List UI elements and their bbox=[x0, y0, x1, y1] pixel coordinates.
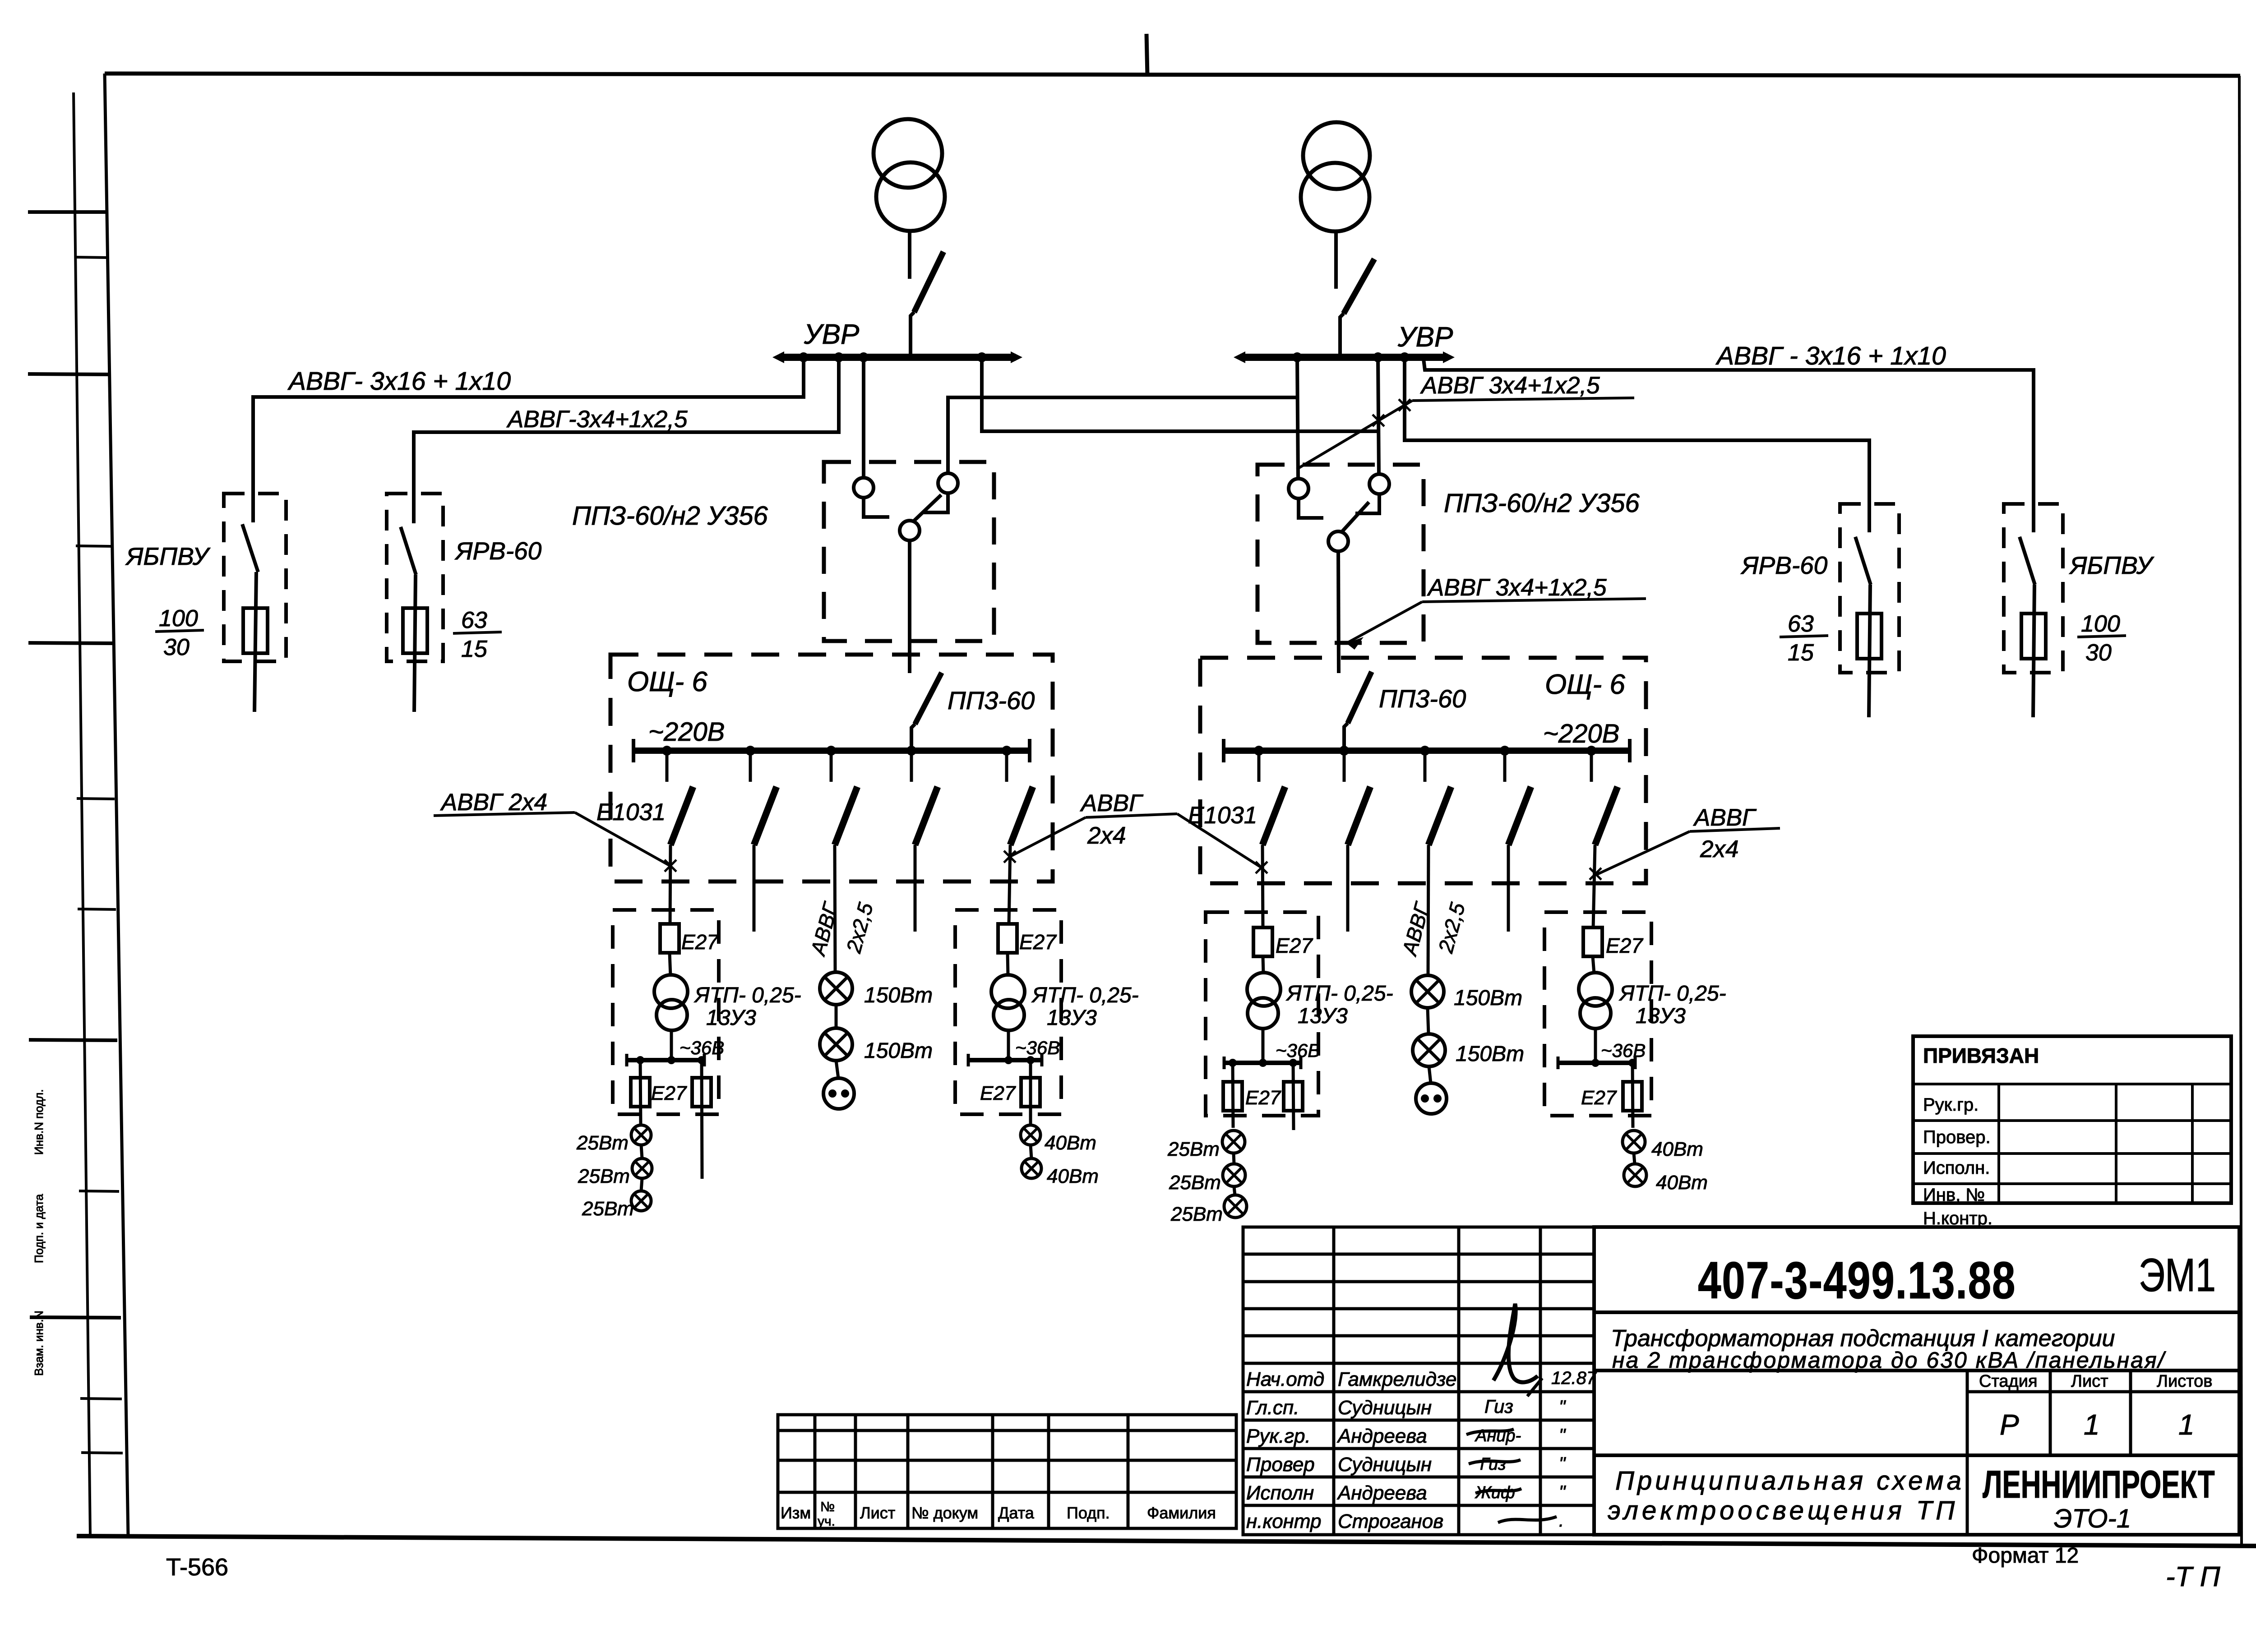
wire through fuse ЯРВ-60 right bbox=[1869, 585, 1870, 717]
changeover switch box ППЗ-60/Н2 1 bbox=[824, 462, 994, 641]
wire branch5 to group C2 bbox=[1593, 845, 1595, 928]
svg-text:407-3-499.13.88: 407-3-499.13.88 bbox=[1698, 1251, 2016, 1310]
lamp 25Вт A1-2 bbox=[632, 1158, 652, 1178]
switch blade in ЯБПВУ left bbox=[242, 524, 258, 572]
panel2 bus dot 4 bbox=[1500, 746, 1510, 756]
wire B2 lamp1-2 bbox=[1428, 1008, 1428, 1034]
A1 36V dot 3 bbox=[698, 1056, 706, 1064]
A2 right lamp fuse bbox=[1284, 1063, 1303, 1130]
label ЯТП-0,25-13У3 group C2 bbox=[1618, 982, 1726, 1028]
transformer ЯТП group C1 bbox=[991, 953, 1025, 1060]
svg-text:Е27: Е27 bbox=[1581, 1087, 1617, 1109]
svg-text:13У3: 13У3 bbox=[1298, 1004, 1348, 1028]
panel2 branch switch 5 bbox=[1591, 751, 1618, 845]
A2 36V dot 1 bbox=[1229, 1059, 1237, 1067]
svg-text:150Вт: 150Вт bbox=[864, 1039, 933, 1063]
label ЯТП-0,25-13У3 group A2 bbox=[1285, 982, 1393, 1028]
label АВВГ 2х4 left with leader bbox=[434, 789, 669, 865]
svg-text:13У3: 13У3 bbox=[706, 1006, 756, 1030]
panel1 branch switch 3 bbox=[831, 751, 857, 845]
svg-text:~36В: ~36В bbox=[1276, 1040, 1320, 1061]
revision header №уч bbox=[818, 1500, 835, 1529]
svg-text:ЭМ1: ЭМ1 bbox=[2139, 1249, 2216, 1301]
wire B2 lamp2-socket bbox=[1429, 1066, 1431, 1083]
svg-text:Подп. и дата: Подп. и дата bbox=[32, 1194, 46, 1263]
svg-text:2х2,5: 2х2,5 bbox=[1433, 900, 1470, 956]
svg-text:Е27: Е27 bbox=[1276, 934, 1313, 957]
ППЗ2 common contact and blade bbox=[1328, 502, 1369, 551]
svg-text:ЯБПВУ: ЯБПВУ bbox=[125, 542, 211, 570]
svg-text:-Т П: -Т П bbox=[2166, 1561, 2220, 1592]
margin tick 8 bbox=[29, 1040, 117, 1040]
lamp 40Вт C2-2 bbox=[1624, 1164, 1646, 1186]
transformer T2 bbox=[1301, 122, 1370, 231]
wire T2 to switch bbox=[1334, 231, 1338, 289]
label ЯТП-0,25-13У3 group C1 bbox=[1031, 983, 1139, 1030]
svg-text:АВВГ-3х4+1х2,5: АВВГ-3х4+1х2,5 bbox=[506, 406, 688, 433]
ППЗ2 right contact bbox=[1355, 474, 1389, 513]
leader cross at branch1 bbox=[665, 860, 676, 872]
svg-text:Е27: Е27 bbox=[651, 1082, 687, 1104]
wire branch2 stub panel2 bbox=[1346, 845, 1350, 932]
svg-text:.: . bbox=[1559, 1511, 1564, 1531]
svg-text:Провер: Провер bbox=[1246, 1454, 1315, 1476]
switch blade in ЯРВ-60 right bbox=[1855, 537, 1871, 585]
wire ППЗ2 to panel 2 bbox=[1338, 551, 1339, 673]
svg-text:": " bbox=[1559, 1426, 1566, 1445]
wire through fuse ЯБПВУ left bbox=[254, 572, 256, 712]
svg-text:ОЩ- 6: ОЩ- 6 bbox=[1545, 669, 1625, 700]
svg-text:УВР: УВР bbox=[804, 319, 859, 350]
transformer T1 bbox=[874, 119, 945, 231]
svg-text:Исполн.: Исполн. bbox=[1923, 1158, 1990, 1178]
wire ППЗ1 right contact to link line bbox=[948, 397, 1299, 473]
panel1 branch switch 2 bbox=[750, 751, 777, 845]
svg-text:Фамилия: Фамилия bbox=[1147, 1504, 1216, 1522]
ППЗ1 right contact bbox=[923, 473, 958, 512]
panel1 bus dot 5 bbox=[1002, 746, 1012, 756]
svg-text:": " bbox=[1559, 1454, 1566, 1474]
bus1 junction dot b bbox=[834, 352, 844, 362]
bus2 junction dot b bbox=[1373, 352, 1383, 362]
wire C2 lamp1-2 bbox=[1634, 1153, 1635, 1164]
svg-text:Изм: Изм bbox=[781, 1504, 811, 1522]
svg-text:2х4: 2х4 bbox=[1087, 822, 1126, 849]
bus2 junction dot a bbox=[1292, 352, 1302, 362]
svg-text:ППЗ-60/н2 У356: ППЗ-60/н2 У356 bbox=[1444, 489, 1640, 518]
signature row Гл.сп bbox=[1246, 1396, 1566, 1419]
lighting panel box ОЩ-6 right bbox=[1200, 658, 1646, 883]
svg-text:Анир-: Анир- bbox=[1475, 1426, 1521, 1445]
panel1 branch switch 4 bbox=[911, 751, 938, 845]
svg-text:1: 1 bbox=[2178, 1408, 2195, 1441]
A1 left lamp fuse bbox=[631, 1060, 650, 1125]
svg-text:ЯТП- 0,25-: ЯТП- 0,25- bbox=[693, 983, 801, 1007]
svg-text:15: 15 bbox=[1788, 640, 1814, 666]
lamp 25Вт A1-3 bbox=[631, 1191, 651, 1211]
svg-text:Рук.гр.: Рук.гр. bbox=[1923, 1095, 1979, 1115]
svg-text:Гамкрелидзе: Гамкрелидзе bbox=[1338, 1368, 1456, 1390]
svg-text:1: 1 bbox=[2084, 1408, 2100, 1441]
svg-text:ОЩ- 6: ОЩ- 6 bbox=[627, 666, 707, 697]
svg-text:ЯБПВУ: ЯБПВУ bbox=[2069, 551, 2154, 579]
wire branch3 to group B2 bbox=[1428, 845, 1428, 975]
fuse element ЯРВ-60 right bbox=[1857, 614, 1882, 659]
revision table bbox=[778, 1415, 1236, 1528]
wire A1 lamp1-2 bbox=[641, 1145, 642, 1158]
busbar ~220В panel1 bbox=[633, 739, 1030, 762]
wire through fuse ЯБПВУ right bbox=[2033, 585, 2034, 717]
left margin line bbox=[74, 92, 90, 1537]
svg-text:АВВГ: АВВГ bbox=[1080, 790, 1144, 817]
margin tick 7 bbox=[78, 909, 116, 909]
bus УВР 1 bbox=[772, 351, 1022, 363]
svg-text:63: 63 bbox=[1788, 611, 1814, 637]
group C1 box bbox=[955, 910, 1061, 1114]
border frame right bbox=[2239, 76, 2242, 1545]
C2 lamp fuse bbox=[1623, 1063, 1642, 1128]
svg-text:25Вт: 25Вт bbox=[576, 1132, 629, 1154]
svg-text:ЯРВ-60: ЯРВ-60 bbox=[1740, 551, 1828, 579]
svg-text:АВВГ 2х4: АВВГ 2х4 bbox=[440, 789, 547, 816]
svg-text:": " bbox=[1559, 1397, 1566, 1417]
wire A2 lamp2-3 bbox=[1234, 1186, 1235, 1195]
wire A1 lamp2-3 bbox=[641, 1178, 642, 1191]
svg-text:~220В: ~220В bbox=[648, 717, 725, 747]
switch blade in ЯРВ-60 left bbox=[401, 527, 416, 575]
svg-text:Е27: Е27 bbox=[980, 1082, 1016, 1104]
svg-text:Дата: Дата bbox=[998, 1504, 1035, 1522]
rating 100/30 right bbox=[2077, 611, 2126, 666]
svg-text:Инв, №: Инв, № bbox=[1923, 1185, 1985, 1205]
big signature stroke bbox=[1493, 1304, 1538, 1382]
title block right outer bbox=[1594, 1227, 2239, 1535]
svg-text:150Вт: 150Вт bbox=[1454, 986, 1522, 1010]
svg-text:ЛЕННИИПРОЕКТ: ЛЕННИИПРОЕКТ bbox=[1983, 1463, 2215, 1506]
lamp 40Вт C1-2 bbox=[1022, 1158, 1041, 1178]
lamp 40Вт C1-1 bbox=[1021, 1125, 1040, 1145]
rating 100/30 left bbox=[155, 605, 204, 660]
group A1 box bbox=[613, 910, 719, 1114]
svg-text:АВВГ - 3х16 + 1х10: АВВГ - 3х16 + 1х10 bbox=[1715, 341, 1946, 370]
feed switch blade panel1 bbox=[911, 673, 942, 751]
wire bus2 to cable АВВГ-3х4 right bbox=[1405, 357, 1869, 532]
label АВВГ 3х4+1х2,5 feed with leader bbox=[1346, 574, 1646, 650]
svg-text:Е27: Е27 bbox=[1245, 1087, 1281, 1109]
margin tick 2 bbox=[74, 257, 107, 258]
svg-text:25Вт: 25Вт bbox=[582, 1198, 634, 1220]
busbar ~36В group A2 bbox=[1224, 1057, 1301, 1069]
leader cross at panel2 branch1 bbox=[1256, 862, 1267, 873]
fuse Е27 group A1 bbox=[660, 924, 679, 953]
fuse element ЯБПВУ right bbox=[2021, 614, 2046, 659]
svg-text:Р: Р bbox=[2000, 1408, 2019, 1441]
signature row Нач.отд bbox=[1246, 1368, 1597, 1390]
svg-text:Е27: Е27 bbox=[681, 930, 719, 954]
svg-text:ЯТП- 0,25-: ЯТП- 0,25- bbox=[1031, 983, 1139, 1007]
lamp 150Вт B2-2 bbox=[1413, 1034, 1445, 1066]
C2 36V dot 2 bbox=[1628, 1059, 1637, 1067]
margin tick 1 bbox=[28, 210, 106, 214]
bus УВР 2 bbox=[1234, 351, 1455, 363]
svg-text:100: 100 bbox=[159, 605, 198, 632]
svg-text:Лист: Лист bbox=[860, 1504, 895, 1522]
wire bus2 to cable АВВГ-3х16 right bbox=[1424, 359, 2034, 532]
group A2 box bbox=[1206, 912, 1318, 1116]
svg-text:~36В: ~36В bbox=[1015, 1037, 1060, 1058]
svg-text:Стадия: Стадия bbox=[1979, 1372, 2038, 1391]
busbar ~36В group A1 bbox=[627, 1054, 704, 1066]
bus1 junction dot a bbox=[799, 352, 809, 362]
svg-text:25Вт: 25Вт bbox=[1169, 1172, 1221, 1194]
panel2 bus dot 2 bbox=[1339, 746, 1349, 756]
wire bus1 drop to ППЗ1 left contact bbox=[862, 357, 865, 478]
lamp 25Вт A2-3 bbox=[1224, 1195, 1247, 1218]
svg-text:Андреева: Андреева bbox=[1336, 1425, 1427, 1447]
wire bus1 to cable АВВГ-3х16 left bbox=[253, 357, 804, 522]
svg-text:Подп.: Подп. bbox=[1067, 1504, 1110, 1522]
svg-text:Исполн: Исполн bbox=[1246, 1482, 1314, 1504]
panel1 bus dot 4 bbox=[906, 746, 916, 756]
wire branch1 to group A2 bbox=[1262, 845, 1263, 928]
svg-text:Судницын: Судницын bbox=[1338, 1397, 1432, 1419]
fuse element ЯБПВУ left bbox=[243, 608, 268, 653]
transformer ЯТП group C2 bbox=[1579, 956, 1612, 1062]
panel2 branch switch 2 bbox=[1344, 751, 1370, 845]
svg-text:": " bbox=[1559, 1482, 1566, 1502]
svg-text:T-566: T-566 bbox=[166, 1554, 228, 1581]
ПРИВЯЗАН grid bbox=[1913, 1084, 2231, 1203]
wire branch5 to group C1 bbox=[1009, 845, 1010, 925]
wire through fuse ЯРВ-60 left bbox=[414, 575, 416, 712]
panel1 bus dot 2 bbox=[745, 746, 755, 756]
svg-text:АВВГ- 3х16 + 1х10: АВВГ- 3х16 + 1х10 bbox=[287, 367, 511, 396]
panel2 bus dot 3 bbox=[1420, 746, 1430, 756]
margin tick 6 bbox=[77, 798, 115, 799]
svg-text:30: 30 bbox=[2085, 640, 2112, 666]
svg-text:уч.: уч. bbox=[818, 1514, 835, 1529]
panel2 branch switch 1 bbox=[1259, 751, 1285, 845]
svg-text:63: 63 bbox=[461, 607, 487, 633]
wire branch1 to group A1 bbox=[670, 845, 670, 925]
border frame left bbox=[105, 74, 128, 1537]
leader cross b bbox=[1373, 415, 1384, 426]
margin tick 4 bbox=[76, 546, 112, 546]
svg-text:40Вт: 40Вт bbox=[1651, 1138, 1703, 1160]
title block signature table bbox=[1243, 1227, 1594, 1535]
svg-text:ППЗ-60/н2 У356: ППЗ-60/н2 У356 bbox=[572, 501, 768, 531]
svg-text:Гиз: Гиз bbox=[1480, 1455, 1506, 1474]
wire bus2 to ППЗ2 left contact bbox=[1297, 357, 1298, 479]
wire branch2 stub bbox=[753, 845, 756, 932]
svg-text:100: 100 bbox=[2081, 611, 2120, 637]
feed switch blade panel2 bbox=[1344, 672, 1372, 751]
svg-text:15: 15 bbox=[461, 636, 488, 662]
panel2 branch switch 3 bbox=[1425, 751, 1451, 845]
lamp 150Вт B1-1 bbox=[820, 972, 852, 1005]
svg-text:н.контр: н.контр bbox=[1246, 1510, 1322, 1532]
fuse box ЯРВ-60 left bbox=[387, 494, 443, 661]
signature strokes small bbox=[1466, 1378, 1557, 1523]
svg-text:ПРИВЯЗАН: ПРИВЯЗАН bbox=[1923, 1044, 2039, 1067]
A2 left lamp fuse bbox=[1223, 1063, 1242, 1128]
top center tick bbox=[1146, 34, 1147, 76]
leader cross at panel1 branch5 bbox=[1004, 851, 1016, 863]
margin tick 12 bbox=[81, 1453, 123, 1453]
label АВВГ 2х4 right with leader bbox=[1597, 804, 1780, 874]
lamp 25Вт A2-1 bbox=[1222, 1131, 1245, 1153]
svg-text:Гиз: Гиз bbox=[1484, 1396, 1513, 1417]
signature row Исполн bbox=[1246, 1482, 1566, 1504]
svg-text:12.87: 12.87 bbox=[1551, 1368, 1597, 1388]
svg-text:Е1031: Е1031 bbox=[596, 799, 666, 826]
margin tick 10 bbox=[30, 1317, 121, 1318]
panel1 branch switch 1 bbox=[667, 751, 693, 845]
svg-text:№ докум: № докум bbox=[911, 1504, 978, 1522]
label ЯТП-0,25-13У3 group A1 bbox=[693, 983, 801, 1030]
svg-text:электроосвещения ТП: электроосвещения ТП bbox=[1608, 1496, 1958, 1525]
busbar ~36В group C2 bbox=[1558, 1057, 1635, 1069]
wire B1 lamp2-socket bbox=[836, 1061, 838, 1078]
svg-text:Формат 12: Формат 12 bbox=[1972, 1544, 2079, 1568]
svg-text:ПП3-60: ПП3-60 bbox=[948, 686, 1035, 715]
fuse box ЯБПВУ left bbox=[224, 494, 286, 661]
busbar ~220В panel2 bbox=[1224, 739, 1630, 762]
svg-text:ЯТП- 0,25-: ЯТП- 0,25- bbox=[1618, 982, 1726, 1006]
wire bus2 to ППЗ2 right contact bbox=[1378, 357, 1379, 474]
A1 right lamp fuse bbox=[692, 1060, 711, 1179]
signature row Рук.гр bbox=[1246, 1425, 1566, 1447]
C1 36V dot 1 bbox=[1004, 1056, 1012, 1064]
margin tick 5 bbox=[28, 643, 113, 643]
ППЗ2 left contact bbox=[1289, 479, 1323, 518]
margin tick 11 bbox=[80, 1398, 122, 1399]
svg-text:Инв.N подл.: Инв.N подл. bbox=[32, 1089, 46, 1155]
margin tick 3 bbox=[28, 374, 109, 374]
panel1 bus dot 1 bbox=[662, 746, 672, 756]
svg-text:40Вт: 40Вт bbox=[1045, 1132, 1096, 1154]
стадия table bbox=[1967, 1371, 2239, 1535]
margin tick 9 bbox=[79, 1191, 119, 1191]
svg-text:13У3: 13У3 bbox=[1636, 1004, 1686, 1028]
fuse Е27 group A2 bbox=[1253, 928, 1272, 956]
wire B1 lamp1-2 bbox=[835, 1005, 838, 1028]
lighting panel box ОЩ-6 left bbox=[610, 655, 1053, 881]
A2 36V dot 3 bbox=[1289, 1059, 1297, 1067]
svg-text:ПП3-60: ПП3-60 bbox=[1379, 684, 1466, 713]
svg-text:АВВГ 3х4+1х2,5: АВВГ 3х4+1х2,5 bbox=[1420, 372, 1600, 399]
svg-text:13У3: 13У3 bbox=[1047, 1006, 1097, 1030]
border frame top bbox=[105, 74, 2240, 76]
svg-text:2х4: 2х4 bbox=[1700, 836, 1738, 863]
svg-text:~36В: ~36В bbox=[680, 1037, 724, 1058]
panel2 bus dot 1 bbox=[1254, 746, 1264, 756]
leader cross a bbox=[1399, 399, 1410, 411]
fuse box ЯБПВУ right bbox=[2004, 504, 2063, 673]
label cable АВВГ 3х4+1х2,5 right upper bbox=[1297, 372, 1634, 469]
svg-text:25Вт: 25Вт bbox=[1167, 1138, 1220, 1160]
A2 36V dot 2 bbox=[1259, 1059, 1267, 1067]
lamp 25Вт A2-2 bbox=[1223, 1164, 1245, 1186]
svg-text:Судницын: Судницын bbox=[1338, 1454, 1432, 1476]
switch blade in ЯБПВУ right bbox=[2020, 537, 2035, 585]
group C2 box bbox=[1544, 912, 1651, 1116]
svg-text:30: 30 bbox=[163, 634, 190, 660]
svg-text:Строганов: Строганов bbox=[1338, 1510, 1443, 1532]
svg-text:2х2,5: 2х2,5 bbox=[841, 900, 878, 956]
transformer ЯТП group A1 bbox=[654, 953, 688, 1060]
label АВВГ 2х4 center with leaders bbox=[1011, 790, 1261, 867]
svg-text:Гл.сп.: Гл.сп. bbox=[1246, 1397, 1299, 1419]
svg-text:ЭТО-1: ЭТО-1 bbox=[2054, 1504, 2131, 1533]
svg-text:Принципиальная схема: Принципиальная схема bbox=[1615, 1466, 1965, 1495]
lamp 150Вт B1-2 bbox=[820, 1028, 852, 1061]
C1 lamp fuse bbox=[1021, 1060, 1040, 1125]
wire branch4 stub panel2 bbox=[1507, 845, 1510, 932]
socket B1 bbox=[823, 1078, 854, 1109]
signature row Провер bbox=[1246, 1454, 1566, 1476]
svg-text:ЯТП- 0,25-: ЯТП- 0,25- bbox=[1285, 982, 1393, 1006]
bus1 junction dot d bbox=[977, 352, 987, 362]
stamp box ПРИВЯЗАН bbox=[1913, 1036, 2231, 1203]
svg-text:Нач.отд: Нач.отд bbox=[1246, 1368, 1324, 1390]
svg-text:Е27: Е27 bbox=[1019, 930, 1057, 954]
svg-text:~36В: ~36В bbox=[1601, 1040, 1646, 1061]
svg-text:ЯРВ-60: ЯРВ-60 bbox=[454, 537, 542, 565]
fuse Е27 group C1 bbox=[998, 924, 1017, 953]
C1 36V dot 2 bbox=[1026, 1056, 1035, 1064]
svg-text:УВР: УВР bbox=[1397, 322, 1453, 353]
panel1 branch switch 5 bbox=[1007, 751, 1033, 845]
svg-text:150Вт: 150Вт bbox=[1456, 1042, 1524, 1066]
changeover switch box ППЗ-60/Н2 2 bbox=[1257, 465, 1424, 643]
wire branch4 stub bbox=[914, 845, 917, 932]
lamp 40Вт C2-1 bbox=[1623, 1131, 1645, 1153]
lamp 25Вт A1-1 bbox=[631, 1125, 651, 1145]
svg-text:Взам. инв.N: Взам. инв.N bbox=[32, 1311, 46, 1376]
svg-text:40Вт: 40Вт bbox=[1047, 1165, 1099, 1187]
svg-text:25Вт: 25Вт bbox=[1170, 1203, 1223, 1225]
svg-text:Андреева: Андреева bbox=[1336, 1482, 1427, 1504]
svg-text:№: № bbox=[820, 1500, 835, 1514]
disconnect switch QS1 blade bbox=[911, 252, 943, 357]
wire bus1 to cable АВВГ-3х4 left bbox=[414, 357, 839, 523]
svg-text:40Вт: 40Вт bbox=[1656, 1172, 1708, 1194]
fuse box ЯРВ-60 right bbox=[1840, 504, 1899, 673]
ППЗ1 common contact and blade bbox=[900, 495, 941, 540]
svg-text:~220В: ~220В bbox=[1543, 719, 1619, 748]
A1 36V dot 1 bbox=[636, 1056, 644, 1064]
panel2 bus dot 5 bbox=[1586, 746, 1596, 756]
svg-text:на 2 трансформатора до 630 кВА: на 2 трансформатора до 630 кВА /панельна… bbox=[1612, 1347, 2167, 1373]
wire bus1 drop to link line lower bbox=[982, 357, 1379, 431]
rating 63/15 right bbox=[1780, 611, 1828, 666]
rating 63/15 left bbox=[453, 607, 502, 662]
svg-text:АВВГ: АВВГ bbox=[1693, 804, 1757, 831]
fuse Е27 group C2 bbox=[1583, 928, 1602, 956]
svg-text:АВВГ: АВВГ bbox=[806, 899, 843, 959]
svg-text:25Вт: 25Вт bbox=[578, 1165, 630, 1187]
disconnect switch QS2 blade bbox=[1340, 259, 1374, 357]
wire branch3 to group B1 bbox=[835, 845, 835, 972]
svg-text:Провер.: Провер. bbox=[1923, 1127, 1991, 1147]
svg-text:Листов: Листов bbox=[2157, 1372, 2212, 1391]
ППЗ1 left contact bbox=[854, 478, 889, 517]
svg-text:АВВГ 3х4+1х2,5: АВВГ 3х4+1х2,5 bbox=[1427, 574, 1607, 601]
leader cross at panel2 branch5 bbox=[1590, 868, 1601, 880]
transformer ЯТП group A2 bbox=[1247, 956, 1281, 1062]
wire C1 lamp1-2 bbox=[1031, 1145, 1031, 1158]
